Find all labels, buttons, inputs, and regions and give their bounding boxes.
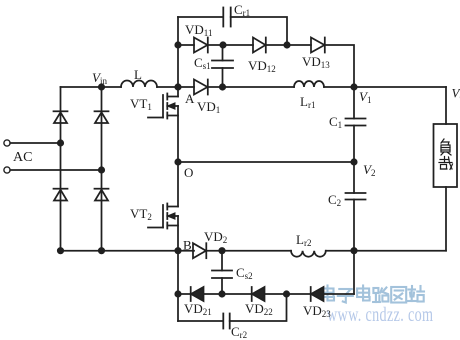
路 [373, 288, 388, 303]
svg-text:VD21: VD21 [184, 301, 212, 317]
wire bottom rail (bridge to VD2) [61, 250, 195, 252]
diode VD2 [193, 243, 206, 258]
label load glyph 负 [441, 139, 451, 155]
svg-text:L: L [134, 67, 142, 82]
svg-text:C1: C1 [329, 114, 342, 130]
inductor Lr2 [291, 251, 326, 257]
svg-text:Cr1: Cr1 [234, 2, 250, 18]
node AC bottom tap junction [99, 167, 104, 172]
capacitor Cs1 [212, 61, 233, 69]
wire Cs1 top lead [222, 45, 224, 61]
node Cr2 right junction [284, 291, 289, 296]
diode VD12 [253, 38, 266, 53]
capacitor Cr1 [223, 8, 230, 27]
子 [338, 289, 353, 303]
inductor Lr1 [294, 81, 324, 87]
图 [391, 287, 406, 303]
diode bridge bottom-left [54, 189, 68, 201]
wire bridge right leg [101, 87, 103, 251]
svg-text:VT1: VT1 [130, 96, 152, 112]
capacitor Cr2 [223, 314, 229, 329]
wire AC bottom lead [10, 169, 101, 171]
svg-text:VD13: VD13 [302, 54, 330, 70]
wire VD22 to VD23 [265, 293, 312, 295]
svg-text:VD11: VD11 [185, 22, 212, 38]
wire VD21 row left [178, 293, 191, 295]
wire Cs1 bottom lead [222, 68, 224, 87]
capacitor C2 [346, 193, 366, 200]
node Cs2 top junction [219, 248, 224, 253]
svg-text:Cs2: Cs2 [236, 265, 253, 281]
node V1 junction [351, 84, 356, 89]
node bridge bottom-right junction [99, 248, 104, 253]
diode VD23 [311, 287, 324, 301]
svg-text:VD1: VD1 [197, 99, 220, 115]
node B junction [175, 248, 180, 253]
node bottom-right junction [351, 248, 356, 253]
wire load top lead [445, 87, 447, 124]
站 [408, 286, 424, 302]
wire Cr1 left lead [178, 16, 223, 18]
wire O row [178, 161, 354, 163]
svg-text:B: B [183, 238, 192, 253]
svg-text:O: O [184, 165, 193, 180]
电 [357, 286, 370, 301]
svg-text:VT2: VT2 [130, 206, 152, 222]
wire VD12 to VD13 [266, 44, 311, 46]
wire bottom rail (Lr2 to load) [326, 250, 446, 252]
watermark line2 www.cndzz.com [327, 302, 433, 325]
svg-text:VD12: VD12 [248, 58, 276, 74]
watermark line1 电子电路图站 [322, 286, 425, 303]
wire top rail (Lr1 to load) [324, 86, 446, 88]
wire Cr1 right lead [231, 17, 287, 45]
wire V2 to C2 [353, 162, 355, 193]
node Cs1 bottom junction [220, 84, 225, 89]
svg-text:Cs1: Cs1 [194, 55, 211, 71]
wire Cs2 bottom lead [221, 278, 223, 294]
svg-text:V1: V1 [359, 89, 371, 105]
svg-text:AC: AC [13, 150, 32, 165]
wire C1 to V2 [353, 126, 355, 163]
diode bridge top-left [54, 111, 68, 123]
wire bottom rail (VD2 to Lr2) [206, 250, 291, 252]
load box 负载 [434, 124, 458, 187]
svg-text:VD2: VD2 [204, 229, 227, 245]
wire Cr2 right lead [230, 294, 287, 321]
diode VD22 [252, 287, 265, 301]
svg-text:Lr1: Lr1 [300, 94, 315, 110]
capacitor C1 [346, 119, 366, 126]
diode VD21 [191, 287, 204, 301]
wire load bottom lead [445, 187, 447, 251]
node bridge bottom-left junction [58, 248, 63, 253]
svg-text:VD22: VD22 [245, 301, 273, 317]
node A junction [175, 84, 180, 89]
wire left rail top segment [177, 17, 179, 97]
wire VT1 source to O and to VT2 [177, 106, 179, 207]
svg-text:V2: V2 [363, 162, 375, 178]
wire VD11 to VD12 [208, 44, 253, 46]
svg-text:Cr2: Cr2 [231, 324, 247, 340]
wire VD23 to right column [324, 293, 355, 295]
node V2 junction [351, 159, 356, 164]
wire top rail (VD1 to Lr1) [208, 86, 294, 88]
wire V1 to C1 [353, 87, 355, 119]
wire top rail left (bridge to L) [61, 86, 122, 88]
wire Cs2 top lead [221, 251, 223, 271]
node Vin junction [99, 84, 104, 89]
node AC top tap junction [58, 140, 63, 145]
transistor VT1 [148, 94, 178, 119]
node AC terminal top [4, 140, 10, 146]
transistor VT2 [148, 204, 178, 229]
wire VD13 to V1 [325, 45, 354, 87]
label load glyph 载 [439, 157, 453, 170]
wire Cr2 left lead [178, 320, 223, 322]
wire VT2 source to B [177, 216, 179, 251]
capacitor Cs2 [212, 271, 232, 279]
inductor L [121, 81, 157, 88]
wire bridge left leg [60, 87, 62, 251]
diode VD1 [194, 80, 208, 95]
node Cs1 top junction [220, 42, 225, 47]
svg-text:Vo: Vo [452, 86, 460, 102]
diode VD13 [311, 38, 325, 53]
wire AC top lead [10, 142, 60, 144]
node VD11 rail junction [175, 42, 180, 47]
node VD21 rail junction [175, 291, 180, 296]
wire bottom junction down to VD23 row [353, 251, 355, 294]
wire top rail (L to VD1) [157, 86, 194, 88]
node AC terminal bottom [4, 167, 10, 173]
svg-text:Lr2: Lr2 [296, 232, 311, 248]
wire B down to VD21 row [177, 251, 179, 321]
diode bridge top-right [95, 111, 109, 123]
svg-text:www. cndzz. com: www. cndzz. com [327, 302, 433, 325]
wire VD21 to VD22 [204, 293, 253, 295]
node Cr1 right junction [284, 42, 289, 47]
node Cs2 bottom junction [219, 291, 224, 296]
svg-text:Vin: Vin [92, 70, 107, 86]
diode bridge bottom-right [95, 189, 109, 201]
电 [322, 286, 335, 301]
wire C2 to bottom rail [353, 200, 355, 251]
diode VD11 [194, 38, 208, 53]
svg-text:C2: C2 [328, 192, 341, 208]
node O junction [175, 159, 180, 164]
wire VD11 row left [178, 44, 194, 46]
